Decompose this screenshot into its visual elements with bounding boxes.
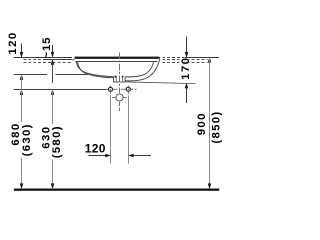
drain hole right edge [122,76,124,82]
dimension 630/580 rail arrow at L_B [51,90,54,95]
fixing holes centerline horizontal dashes between and right [115,88,118,90]
vertical centerline of drain lower part [119,102,121,111]
dimension 120 top arrow [20,52,23,57]
outlet bottom sloped extension line [125,82,195,84]
basin rim top bar [75,57,159,59]
dimension 170 top rail [186,37,188,53]
bowl inner wall left [76,61,113,76]
basin underside reference line L_A near basin [56,74,88,76]
dimension 170 bottom arrow [185,83,188,88]
countertop top line left (H1) [14,57,72,59]
dimension 120 bottom left tail [89,155,107,157]
label 170 halo [179,59,188,79]
countertop top line right dashed (H1 hidden) [162,57,185,59]
drain hole left edge [115,76,117,82]
countertop surface line H2 right dashed [162,59,207,61]
dimension 170 bottom rail [186,87,188,102]
dimension 680 rail upper part [21,75,23,122]
dimension ~15 rail [52,45,54,53]
dimension ~15 lower stub [52,64,54,84]
dimension 630 rail lower part [52,160,54,189]
drain boss bottom [113,81,125,83]
fixing holes axis line L_B [14,89,106,91]
svg-text:(850): (850) [211,111,223,144]
dimension 120 bottom left arrow [106,154,111,157]
bowl outer shell right [125,58,160,80]
dimension 120 bottom right tail [133,155,151,157]
svg-text:(630): (630) [21,123,33,156]
fixing hole right centerline vertical ticks [127,85,129,87]
hidden edge H3 right dashed [162,62,207,64]
fixing hole left centerline vertical rail [110,96,112,164]
big hole centerline horizontal ticks [112,97,116,99]
basin rim left tip hook [73,59,75,61]
drain knob right [122,76,124,78]
drain knob left [115,76,117,78]
dimension 630 rail upper part [52,90,54,124]
countertop surface line H2 left dashed [24,59,45,61]
svg-text:900: 900 [196,112,208,135]
dimension 900 floor arrow [208,184,211,189]
bowl outer shell left [78,61,114,78]
drain boss right wall [124,77,126,82]
drain hole circle [116,94,123,101]
hidden edge H3 left dashed [24,62,72,64]
fixing hole left centerline vertical ticks [110,85,112,87]
svg-text:120: 120 [7,31,19,54]
countertop surface line H2 left solid [44,59,72,61]
dimension ~15 up arrow [51,60,54,65]
dimension 120 bottom right arrow [129,154,134,157]
dimension 170 top arrow [185,52,188,57]
fixing hole left symbol [106,87,115,91]
svg-text:(580): (580) [51,125,63,158]
dimension ~15 down arrow [51,52,54,57]
dimension 900/850 rail up arrow [208,58,211,63]
svg-text:170: 170 [180,57,192,80]
floor line [14,189,219,191]
dimension 680 floor arrow [20,184,23,189]
vertical centerline of drain [119,52,121,93]
svg-text:120: 120 [85,141,106,155]
dimension 630 floor arrow [51,184,54,189]
basin rim right tip [159,57,160,59]
dimension 680 rail lower part [21,158,23,189]
countertop top line right solid (H1 extension) [185,57,219,59]
bowl inner wall right [125,61,153,77]
dimension 900 rail [209,58,211,188]
svg-text:~15: ~15 [41,37,53,59]
basin rim underside line [76,61,158,63]
drain boss left wall [113,76,115,82]
dimension 680/630 rail upper arrow at L_A [20,75,23,80]
dimension 680/630 rail arrow at L_B [20,90,23,95]
fixing hole right centerline vertical rail [128,96,130,164]
fixing hole right symbol [124,87,133,91]
basin underside reference line L_A left [14,74,48,76]
dimension 120 top rail [21,44,23,54]
